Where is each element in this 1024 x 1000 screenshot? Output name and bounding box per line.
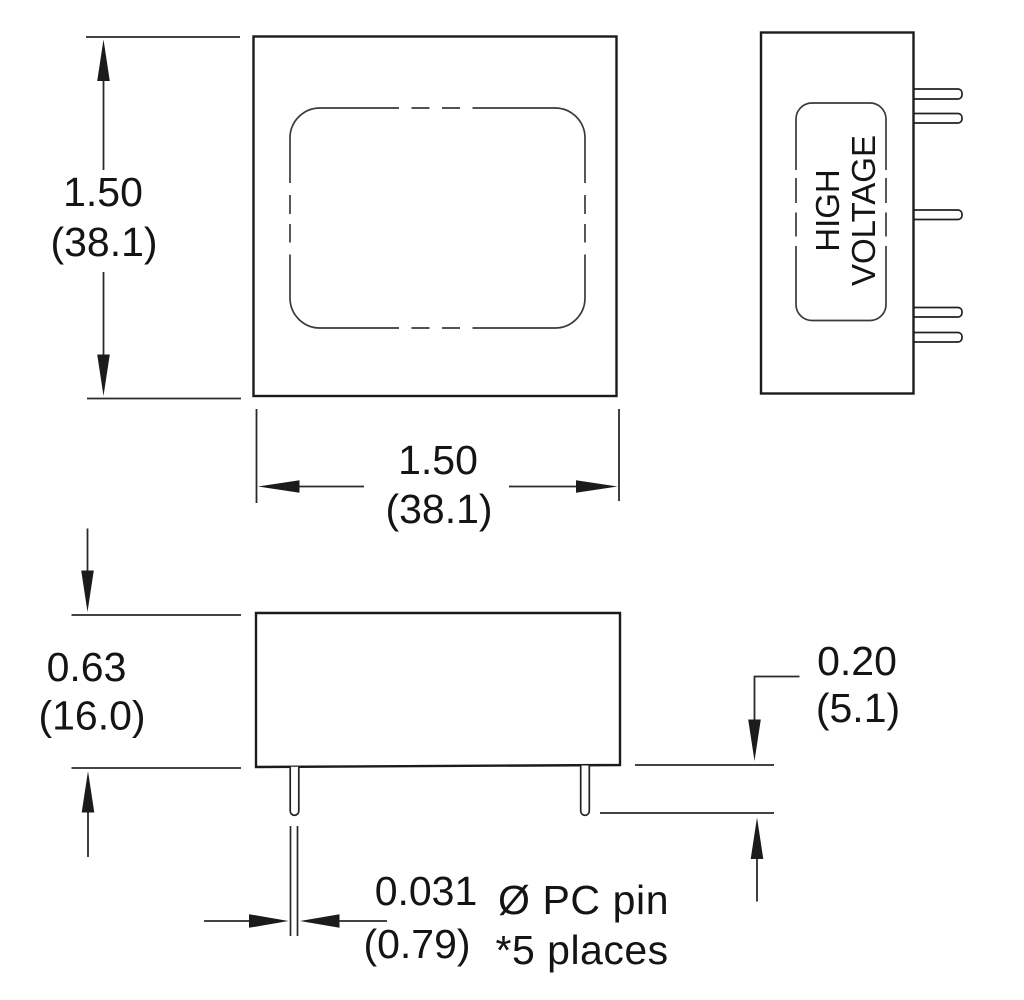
dimension 1.50 vertical: upper dimension line — [103, 60, 105, 170]
svg-text:1.50: 1.50 — [63, 169, 143, 215]
dimension 0.63: upper arrowhead (down) — [81, 571, 94, 613]
dimension 0.20: up arrowhead — [751, 818, 764, 860]
top view: package body outline — [254, 37, 617, 397]
side view: pin 4 — [911, 308, 962, 318]
dimension 1.50 vertical: lower dimension line — [103, 272, 105, 375]
front view: pin projection line right — [297, 826, 299, 936]
dimension 0.20: down arrowhead — [748, 720, 761, 762]
front view: pin projection line left — [290, 826, 292, 936]
dimension 0.031: left segment — [204, 920, 252, 922]
svg-text:(38.1): (38.1) — [50, 219, 157, 265]
svg-text:1.50: 1.50 — [398, 437, 478, 483]
front view: right pin — [581, 766, 590, 816]
svg-text:0.031: 0.031 — [375, 868, 478, 914]
dimension 1.50 horizontal: right arrowhead — [576, 480, 618, 493]
svg-text:*5 places: *5 places — [496, 927, 669, 973]
dimension 1.50 vertical: lower arrowhead — [97, 355, 110, 397]
side view: package body outline — [761, 33, 914, 394]
dimension 1.50 vertical: upper arrowhead — [97, 40, 110, 82]
dimension 1.50 horizontal: left arrowhead — [258, 480, 300, 493]
dimension 0.031: left-pointing arrowhead — [300, 914, 340, 928]
dimension 0.63: top extension line — [72, 614, 242, 616]
svg-text:(5.1): (5.1) — [816, 685, 900, 731]
dimension 0.20: leader line — [755, 677, 800, 726]
dimension 1.50 horizontal: right extension line — [618, 409, 620, 501]
svg-text:Ø PC pin: Ø PC pin — [498, 877, 669, 923]
svg-text:0.20: 0.20 — [817, 638, 897, 684]
dimension 0.63: lower arrow line — [87, 806, 89, 857]
svg-text:(16.0): (16.0) — [38, 693, 145, 739]
dimension 1.50 horizontal: left segment — [278, 486, 364, 488]
dimension 0.031: right arrowhead pointing right — [249, 914, 289, 928]
svg-text:0.63: 0.63 — [47, 644, 127, 690]
dimension 0.20: lower extension line — [600, 812, 774, 814]
dimension 0.20: upper extension line — [635, 764, 774, 766]
side view: pin 2 — [911, 114, 962, 124]
dimension 1.50 vertical: bottom extension line — [87, 398, 241, 400]
dimension 0.031: right segment — [337, 920, 387, 922]
top view: internal cavity outline (dash-dot) — [290, 108, 585, 328]
svg-text:(38.1): (38.1) — [385, 486, 492, 532]
front view: left pin — [290, 767, 299, 815]
dimension 0.63: bottom extension line — [72, 767, 242, 769]
side view: pin 3 — [911, 210, 962, 220]
dimension 1.50 horizontal: left extension line — [256, 409, 258, 503]
dimension 1.50 vertical: top extension line — [86, 36, 240, 38]
svg-text:(0.79): (0.79) — [363, 921, 470, 967]
svg-text:VOLTAGE: VOLTAGE — [845, 135, 882, 286]
dimension 0.20: up arrow line — [756, 858, 758, 902]
dimension 0.63: lower arrowhead (up) — [82, 771, 95, 813]
dimension 1.50 horizontal: right segment — [509, 486, 598, 488]
front view: package body outline — [256, 613, 620, 767]
svg-text:HIGH: HIGH — [809, 169, 846, 252]
side view: label outline (dash-dot) top portion — [796, 103, 886, 321]
side view: pin 5 — [911, 333, 962, 343]
dimension 0.63: upper arrow line — [87, 529, 89, 581]
side view: pin 1 — [911, 89, 962, 99]
